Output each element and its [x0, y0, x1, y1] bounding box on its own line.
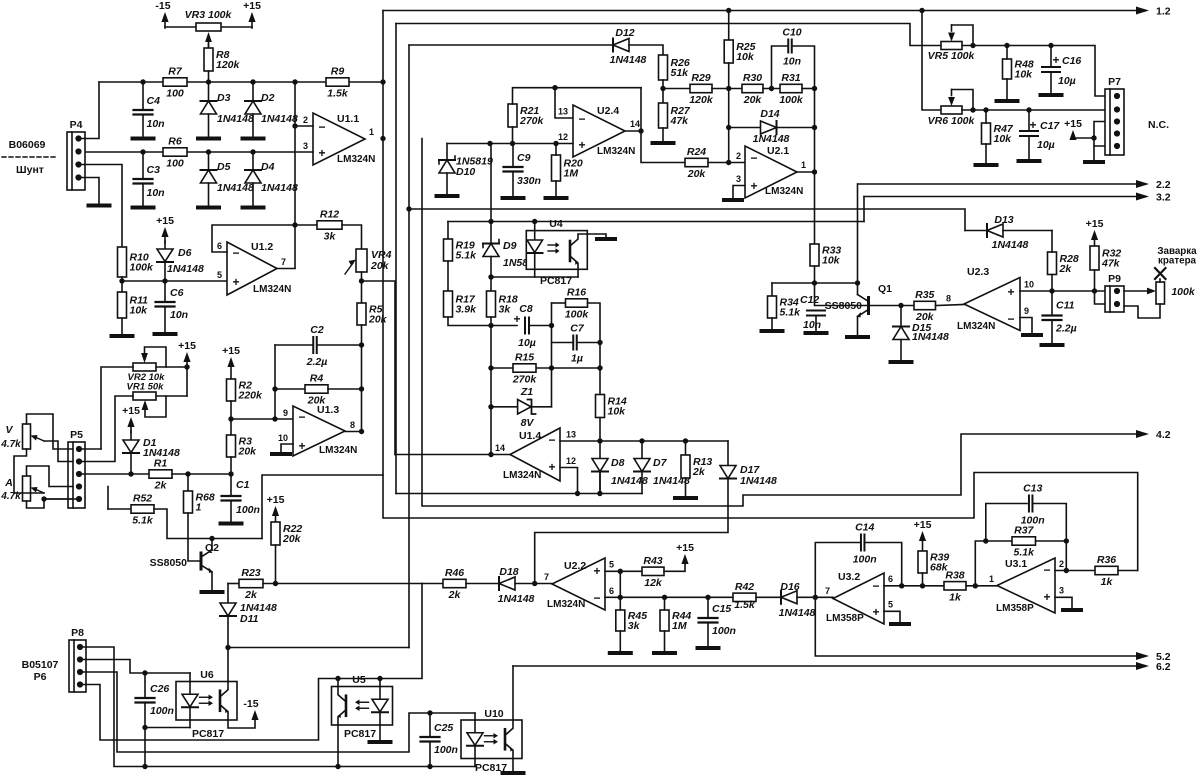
- potentiometer VR2: [128, 347, 166, 383]
- wire U1.2 out: [277, 268, 295, 270]
- wire to R29: [663, 88, 690, 90]
- svg-text:10k: 10k: [130, 305, 149, 317]
- svg-text:10n: 10n: [783, 56, 801, 68]
- wire bus to VR6: [922, 11, 941, 111]
- junction C8 left: [488, 323, 493, 328]
- svg-text:U2.3: U2.3: [967, 266, 989, 278]
- junction C3: [140, 149, 145, 154]
- junction VR4/R5: [359, 278, 364, 283]
- wire VR4 bottom: [361, 272, 363, 281]
- svg-text:+15: +15: [156, 215, 174, 227]
- svg-text:100n: 100n: [853, 554, 877, 566]
- dashed separator: [2, 156, 58, 158]
- resistor R39: [918, 551, 949, 574]
- diode D8: [592, 457, 648, 487]
- wire C16 top: [1050, 46, 1052, 68]
- wire pot bottom loop: [1124, 304, 1160, 318]
- wire C14 loop left: [815, 543, 860, 598]
- capacitor C16: [1042, 53, 1081, 87]
- wire V top to P5 pin1: [27, 414, 74, 449]
- junction pin2: [1064, 568, 1069, 573]
- wire pin5 to R45: [619, 571, 621, 610]
- svg-text:5.1k: 5.1k: [132, 515, 154, 527]
- connector P9: [1105, 273, 1124, 312]
- wire U6 anode drop: [189, 673, 191, 682]
- wire U6 collector: [227, 648, 229, 682]
- svg-text:10k: 10k: [608, 406, 627, 418]
- wire C26 top: [144, 673, 146, 698]
- wire R52 to pin4 line: [107, 487, 109, 510]
- svg-text:270k: 270k: [512, 374, 538, 386]
- wire A bottom to pin5: [27, 499, 74, 508]
- ground C16: [1041, 93, 1062, 97]
- ground U5: [370, 740, 391, 744]
- svg-text:−: −: [1043, 563, 1050, 577]
- wire x490 to D9: [490, 144, 492, 244]
- svg-text:Z1: Z1: [520, 386, 533, 398]
- ground R47: [976, 163, 997, 167]
- wire U6 cathode line: [145, 727, 190, 729]
- svg-text:20k: 20k: [687, 168, 707, 180]
- svg-text:PC817: PC817: [344, 728, 376, 740]
- capacitor C1: [222, 479, 260, 516]
- svg-text:1N4148: 1N4148: [779, 607, 816, 619]
- junction C10 left: [769, 86, 774, 91]
- svg-text:100n: 100n: [434, 744, 458, 756]
- svg-text:6.2: 6.2: [1156, 661, 1171, 673]
- optocoupler U5: [332, 687, 393, 726]
- svg-text:120k: 120k: [689, 94, 714, 106]
- wire Q1 base line: [815, 283, 869, 306]
- svg-text:SS8050: SS8050: [825, 300, 863, 312]
- potentiometer VR3: [185, 9, 233, 46]
- op-amp U1.1: [303, 113, 375, 165]
- svg-text:270k: 270k: [519, 115, 545, 127]
- svg-text:2k: 2k: [1059, 263, 1073, 275]
- resistor R29: [689, 72, 714, 106]
- svg-text:C13: C13: [1023, 483, 1042, 495]
- wire +15 to D6: [164, 241, 166, 249]
- junction R26/R29: [660, 86, 665, 91]
- ground D15: [891, 360, 912, 364]
- svg-text:100k: 100k: [779, 94, 804, 106]
- junction R48: [1004, 43, 1009, 48]
- wire Q2 collector up: [211, 539, 213, 551]
- svg-text:C8: C8: [519, 303, 533, 315]
- svg-text:D14: D14: [760, 108, 779, 120]
- wire net 4.2 route: [422, 139, 1136, 507]
- svg-text:D8: D8: [611, 457, 625, 469]
- junction R22/R23: [273, 581, 278, 586]
- svg-text:VR1 50k: VR1 50k: [127, 382, 165, 393]
- svg-text:+: +: [1052, 53, 1059, 67]
- junction C13 left: [983, 538, 988, 543]
- wire R16 left: [552, 302, 566, 304]
- svg-text:3k: 3k: [499, 304, 512, 316]
- svg-text:LM324N: LM324N: [547, 599, 585, 610]
- svg-text:2k: 2k: [244, 589, 258, 601]
- svg-text:4.2: 4.2: [1156, 429, 1171, 441]
- capacitor C26: [136, 683, 174, 717]
- op-amp U2.3: [946, 266, 1034, 332]
- svg-text:R7: R7: [168, 66, 183, 78]
- wire R20 to ground: [555, 181, 557, 196]
- wire D14 right: [777, 127, 815, 129]
- svg-text:R35: R35: [915, 289, 934, 301]
- svg-text:1: 1: [989, 574, 994, 584]
- resistor R27: [659, 103, 691, 128]
- resistor R7: [163, 66, 187, 100]
- svg-text:U3.1: U3.1: [1005, 558, 1027, 570]
- svg-text:47k: 47k: [1101, 258, 1121, 270]
- svg-text:N.C.: N.C.: [1148, 119, 1169, 131]
- svg-text:кратера: кратера: [1158, 256, 1197, 267]
- svg-text:100n: 100n: [712, 625, 736, 637]
- ground U4: [597, 237, 615, 241]
- ground P7: [1085, 160, 1103, 164]
- wire U4 cathode line: [491, 276, 578, 278]
- resistor R2: [227, 379, 264, 402]
- wire pin12: [560, 468, 578, 494]
- wire R47 top: [985, 110, 987, 123]
- junction Q1 collector: [855, 280, 860, 285]
- wire R52 left: [108, 508, 131, 510]
- wire P8 pin1 to bottom bus: [82, 647, 475, 767]
- ground R13: [675, 496, 696, 500]
- wire U5 cathode to ground: [379, 725, 381, 740]
- svg-text:10n: 10n: [147, 187, 165, 199]
- ground D2: [243, 137, 264, 141]
- svg-text:100: 100: [166, 158, 184, 170]
- svg-text:C7: C7: [570, 323, 585, 335]
- resistor R43: [642, 555, 664, 589]
- svg-text:−: −: [593, 591, 600, 605]
- optocoupler U6: [176, 682, 237, 721]
- svg-text:1: 1: [369, 127, 374, 137]
- svg-text:R23: R23: [241, 567, 260, 579]
- ground U3.2 pin5: [891, 622, 909, 626]
- wire pin3 ground: [1055, 597, 1072, 608]
- svg-text:C11: C11: [1056, 300, 1075, 312]
- svg-text:5: 5: [217, 270, 222, 280]
- wire net 2.2: [858, 183, 1136, 185]
- resistor R22: [271, 522, 302, 545]
- ground U2.1 pin3: [724, 198, 742, 202]
- junction x409 bus209: [406, 206, 411, 211]
- svg-text:U4: U4: [549, 218, 563, 230]
- junction R15 right: [549, 365, 554, 370]
- junction R15/R14: [597, 365, 602, 370]
- resistor R45: [616, 610, 647, 632]
- wire net 3.2: [864, 196, 1136, 198]
- wire pin5: [605, 570, 642, 572]
- wire R28 bottom: [1051, 275, 1053, 292]
- junction R4 right: [359, 386, 364, 391]
- wire R15 line: [491, 367, 600, 369]
- junction D15: [898, 303, 903, 308]
- wire R31 right: [802, 88, 815, 90]
- wire U1.2 feedback: [212, 225, 317, 252]
- diode D5: [201, 161, 254, 194]
- svg-text:2.2µ: 2.2µ: [1055, 323, 1077, 335]
- ground R20: [546, 196, 567, 200]
- wire C15 to ground: [707, 623, 709, 646]
- resistor R26: [659, 55, 690, 80]
- junction D14 left: [726, 125, 731, 130]
- wire R13 to ground: [685, 478, 687, 496]
- junction U1.3 out: [359, 429, 364, 434]
- capacitor C12: [800, 294, 825, 331]
- resistor R12: [317, 209, 342, 243]
- diode D3: [201, 92, 254, 125]
- connector P4: [67, 119, 85, 190]
- wire to C9: [512, 144, 514, 168]
- wire R47 to ground: [985, 144, 987, 163]
- wire C1 to ground: [230, 501, 232, 522]
- wire to R13: [685, 441, 687, 455]
- junction pin5/R45: [618, 569, 623, 574]
- power +15 D1: [122, 405, 140, 433]
- svg-text:6: 6: [888, 574, 893, 584]
- svg-text:D5: D5: [217, 161, 231, 173]
- wire Q2 collector route: [262, 475, 383, 539]
- wire U10 anode drop: [474, 713, 476, 720]
- junction R8/D3: [206, 79, 211, 84]
- svg-text:U1.4: U1.4: [519, 430, 541, 442]
- svg-text:47k: 47k: [670, 115, 690, 127]
- svg-text:20k: 20k: [238, 446, 258, 458]
- junction U1.1 out: [380, 136, 385, 141]
- wire R22 to R23 node: [275, 545, 277, 584]
- wire U6 emitter to -15: [228, 717, 255, 728]
- svg-text:100k: 100k: [130, 262, 155, 274]
- svg-text:2k: 2k: [692, 466, 706, 478]
- wire +15 to D1: [130, 431, 132, 440]
- potentiometer crater 100k: [1156, 282, 1196, 304]
- wire R46 to D18: [466, 583, 499, 585]
- wire D12 line left: [409, 44, 613, 46]
- svg-text:−: −: [750, 151, 757, 165]
- svg-text:R29: R29: [691, 72, 710, 84]
- resistor R52: [131, 493, 154, 527]
- junction R13: [683, 438, 688, 443]
- wire D16 to U3.2: [797, 596, 833, 598]
- wire U4 collector to ground: [587, 234, 606, 237]
- wire to D7: [641, 441, 643, 458]
- wire base to R35: [869, 305, 915, 307]
- resistor R42: [733, 581, 756, 611]
- resistor R44: [660, 610, 691, 632]
- wire VR2-VR1 tie: [186, 367, 188, 396]
- svg-text:P4: P4: [70, 119, 83, 131]
- wire VR5 out to P7 pin1: [962, 46, 1107, 97]
- junction pin2: [292, 123, 297, 128]
- resistor R36: [1095, 554, 1118, 588]
- junction C15: [705, 595, 710, 600]
- diode D11: [220, 602, 277, 625]
- wire R32 to P9 pin2: [1095, 270, 1108, 304]
- svg-text:100: 100: [166, 88, 184, 100]
- potentiometer V: [0, 424, 44, 450]
- wire C14 loop right: [865, 543, 902, 586]
- wire D9 down: [490, 257, 492, 292]
- junction VR2/+15: [184, 364, 189, 369]
- svg-text:+15: +15: [122, 405, 140, 417]
- svg-text:6: 6: [217, 241, 222, 251]
- svg-text:+15: +15: [243, 0, 261, 12]
- junction D14/R33 vertical: [812, 125, 817, 130]
- svg-text:1N4148: 1N4148: [167, 263, 204, 275]
- resistor R6: [163, 136, 187, 170]
- svg-text:R9: R9: [331, 66, 345, 78]
- wire to R34: [771, 283, 773, 296]
- svg-text:1.5k: 1.5k: [734, 599, 756, 611]
- junction R31/C10: [812, 86, 817, 91]
- svg-text:D6: D6: [178, 247, 192, 259]
- wire R35 to U2.3 out: [936, 305, 965, 306]
- svg-text:7: 7: [281, 257, 286, 267]
- wire R34 to ground: [771, 318, 773, 329]
- connector P5: [68, 429, 85, 508]
- wire pin12 line: [447, 143, 573, 145]
- wire R8 to node: [208, 71, 210, 82]
- svg-text:C12: C12: [800, 294, 819, 306]
- wire P4 pin1: [81, 82, 99, 139]
- svg-text:D10: D10: [456, 166, 475, 178]
- svg-text:1: 1: [196, 502, 202, 514]
- ground P4 pin4: [89, 204, 110, 208]
- resistor R38: [944, 569, 966, 603]
- svg-text:C25: C25: [434, 722, 453, 734]
- resistor R16: [565, 287, 590, 321]
- svg-text:1M: 1M: [564, 168, 579, 180]
- capacitor C3: [134, 164, 165, 199]
- svg-text:PC817: PC817: [540, 275, 572, 287]
- op-amp U1.2: [217, 241, 291, 295]
- junction x490 top: [487, 141, 492, 146]
- svg-text:20k: 20k: [368, 314, 388, 326]
- op-amp U3.1: [989, 558, 1064, 614]
- wire R39 bottom: [922, 573, 924, 586]
- wire R29-R30: [712, 88, 742, 90]
- junction pin13 drop: [552, 85, 557, 90]
- junction R15 left: [488, 365, 493, 370]
- wire R52 right route: [154, 509, 262, 539]
- wire bus 1.2 top: [383, 10, 1136, 12]
- resistor R4: [305, 373, 328, 407]
- power +15 P7: [1064, 118, 1082, 140]
- wire R45 to ground: [619, 631, 621, 651]
- svg-text:10µ: 10µ: [1037, 139, 1055, 151]
- svg-text:−: −: [232, 246, 239, 260]
- junction bus VR6: [919, 8, 924, 13]
- wire C3 to ground: [142, 184, 144, 206]
- svg-text:U10: U10: [484, 708, 503, 720]
- svg-text:1N4148: 1N4148: [261, 182, 298, 194]
- diode D6: [157, 247, 204, 275]
- wire D11 bus: [228, 647, 409, 649]
- svg-text:10: 10: [278, 433, 288, 443]
- svg-text:51k: 51k: [671, 67, 690, 79]
- op-amp U3.2: [825, 571, 893, 624]
- svg-text:10µ: 10µ: [1058, 75, 1076, 87]
- optocoupler U10: [461, 720, 522, 759]
- wire 3.2 drop: [863, 197, 865, 222]
- svg-text:1N4148: 1N4148: [992, 239, 1029, 251]
- wire C7 left: [552, 342, 573, 344]
- svg-text:+: +: [1043, 590, 1050, 604]
- svg-text:14: 14: [495, 443, 505, 453]
- wire R11 to ground: [121, 318, 123, 334]
- ground R44: [654, 651, 675, 655]
- wire bus to R25: [728, 11, 730, 41]
- potentiometer A: [0, 476, 44, 502]
- wire D15 to ground: [900, 340, 902, 361]
- wire R43 to +15: [664, 560, 685, 571]
- wire P7 pin3-pin5: [1094, 122, 1107, 147]
- svg-text:1.5k: 1.5k: [327, 88, 349, 100]
- svg-text:C9: C9: [517, 152, 531, 164]
- svg-text:D4: D4: [261, 161, 275, 173]
- svg-text:P9: P9: [1108, 273, 1121, 285]
- svg-text:2k: 2k: [448, 589, 462, 601]
- wire R21 top: [512, 88, 514, 104]
- ground U1.3 pin10: [272, 452, 290, 456]
- ground C6: [155, 332, 176, 336]
- wire D4 to ground: [252, 183, 254, 206]
- junction pin13 line: [597, 438, 602, 443]
- junction D11 bus: [225, 645, 230, 650]
- wire bus to VR5: [396, 24, 941, 46]
- svg-text:9: 9: [1024, 306, 1029, 316]
- junction R21/C9: [510, 141, 515, 146]
- capacitor C17: [1020, 118, 1060, 151]
- wire R38 to U3.1: [966, 585, 997, 587]
- junction D5: [206, 149, 211, 154]
- ground C1: [221, 522, 242, 526]
- wire D11 to bus: [227, 616, 229, 648]
- wire P4 pin4: [81, 178, 99, 204]
- diode D14: [753, 108, 790, 145]
- wire to C3: [142, 152, 144, 179]
- op-amp U2.4: [558, 105, 640, 157]
- svg-text:10k: 10k: [822, 255, 841, 267]
- svg-text:R42: R42: [735, 581, 754, 593]
- zener Z1: [518, 386, 536, 429]
- wire U10 cathode drop: [474, 759, 476, 767]
- svg-text:R43: R43: [643, 555, 662, 567]
- power +15 R43: [676, 542, 694, 564]
- wire VR2 left to pin1: [101, 367, 133, 449]
- junction R9 right: [380, 79, 385, 84]
- ground R34: [762, 329, 783, 333]
- svg-text:C17: C17: [1040, 120, 1060, 132]
- resistor R20: [552, 155, 583, 181]
- svg-text:−: −: [318, 120, 325, 134]
- ground U2.3 pin9: [1023, 333, 1041, 337]
- svg-text:SS8050: SS8050: [150, 557, 188, 569]
- svg-text:3: 3: [1059, 586, 1064, 596]
- svg-text:+15: +15: [1064, 118, 1082, 130]
- wire C6 to ground: [164, 307, 166, 332]
- wire to D10: [446, 144, 448, 161]
- wire R48 to ground: [1006, 79, 1008, 99]
- svg-text:D2: D2: [261, 92, 275, 104]
- wire feedback vertical U1.3: [274, 345, 276, 419]
- diode D17: [720, 464, 777, 487]
- junction U2.4 out: [638, 128, 643, 133]
- wire to C1: [230, 474, 232, 496]
